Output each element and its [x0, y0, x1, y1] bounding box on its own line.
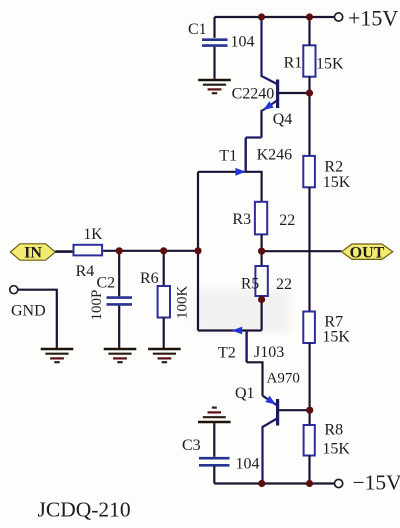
svg-text:104: 104: [231, 34, 255, 51]
transistor Q4 bar: [276, 80, 279, 109]
junction bottom rail R8: [306, 480, 313, 487]
terminal -15V circle: [335, 479, 343, 487]
junction R6 top: [160, 247, 167, 254]
wire input node: [103, 250, 198, 252]
inverted ground (C3): [198, 408, 231, 422]
svg-text:R1: R1: [284, 55, 303, 72]
jfet T2 source lead: [247, 329, 262, 331]
capacitor C1: [202, 40, 228, 46]
transistor Q1 bar: [276, 399, 279, 426]
svg-text:IN: IN: [24, 245, 42, 262]
wire R8 bottom: [308, 456, 310, 484]
svg-text:1K: 1K: [84, 226, 104, 243]
wire T2 gate: [198, 329, 247, 331]
wire top rail +15V: [215, 16, 335, 18]
svg-text:C2240: C2240: [232, 86, 275, 103]
resistor R3: [255, 202, 267, 235]
svg-text:T2: T2: [218, 345, 236, 362]
capacitor C1 stem bottom: [213, 47, 215, 79]
wire node R7R8 down: [309, 410, 311, 425]
svg-text:100P: 100P: [89, 290, 105, 321]
resistor R8: [304, 425, 315, 456]
svg-text:T1: T1: [219, 148, 237, 165]
ground (C2): [104, 349, 137, 362]
jfet T1 source lead: [246, 172, 262, 202]
capacitor C2 stem top: [118, 251, 120, 296]
ground (C1): [198, 80, 231, 93]
svg-text:−15V: −15V: [353, 471, 400, 495]
svg-text:R3: R3: [232, 211, 251, 228]
arrow Q1 emitter: [265, 396, 275, 405]
svg-text:15K: 15K: [323, 174, 351, 191]
wire R7 bottom: [309, 343, 311, 410]
jfet T2 channel bar: [245, 331, 247, 363]
svg-text:R5: R5: [241, 276, 259, 293]
junction R7 R8 base: [306, 407, 313, 414]
jfet T2 drain lead: [247, 362, 263, 395]
capacitor C1 stem top: [213, 17, 215, 38]
svg-text:104: 104: [236, 456, 260, 473]
transistor Q1 collector: [263, 419, 278, 484]
svg-text:OUT: OUT: [350, 244, 385, 261]
arrow T2 gate: [232, 327, 242, 335]
transistor Q1 emitter: [263, 396, 278, 406]
wire R1 top: [308, 17, 310, 45]
svg-text:R6: R6: [140, 270, 159, 287]
net flag OUT: [342, 244, 393, 261]
wire Q4 emitter riser: [260, 110, 262, 138]
junction output node: [258, 248, 265, 255]
svg-text:Q4: Q4: [273, 111, 293, 128]
wire bottom rail -15V: [214, 482, 334, 484]
svg-text:100K: 100K: [175, 286, 191, 320]
resistor R2: [303, 156, 315, 187]
resistor R6: [158, 286, 170, 318]
svg-text:C2: C2: [97, 275, 116, 292]
svg-text:C3: C3: [182, 437, 201, 454]
junction gate rail: [194, 247, 201, 254]
wire R5 top: [261, 251, 263, 266]
svg-text:15K: 15K: [322, 441, 350, 458]
resistor R5: [255, 266, 267, 296]
capacitor C2 stem bottom: [118, 306, 120, 348]
wire R2 to R7: [308, 187, 310, 311]
wire Q4 base to node: [278, 92, 310, 94]
wire node R1R2 down: [308, 93, 310, 156]
junction R1 R2 base: [306, 89, 313, 96]
wire IN to R4: [55, 250, 72, 253]
junction bottom rail center: [258, 480, 265, 487]
resistor R1: [303, 45, 315, 76]
wire Q4 collector riser: [262, 17, 278, 84]
svg-text:15K: 15K: [322, 329, 350, 346]
svg-text:K246: K246: [257, 147, 293, 164]
svg-text:J103: J103: [254, 344, 284, 361]
wire R3 bottom: [261, 234, 263, 251]
capacitor C2: [107, 298, 133, 305]
junction top rail R1: [306, 13, 313, 20]
svg-text:22: 22: [276, 276, 292, 293]
svg-text:R8: R8: [324, 422, 343, 439]
svg-text:A970: A970: [267, 371, 300, 387]
svg-text:Q1: Q1: [235, 385, 255, 402]
wire gate rail: [197, 172, 199, 331]
capacitor C3: [199, 458, 230, 465]
capacitor C3 stem top: [213, 422, 215, 457]
wire R6 bottom: [163, 318, 165, 349]
junction top rail center: [258, 13, 265, 20]
resistor R7: [303, 312, 315, 344]
svg-text:15K: 15K: [316, 56, 344, 73]
arrow Q4 emitter: [263, 101, 273, 110]
wire T1 gate: [198, 171, 246, 173]
ground (R6): [148, 349, 181, 362]
terminal GND circle: [10, 286, 18, 294]
wire Q1 base to node: [278, 409, 310, 411]
svg-text:JCDQ-210: JCDQ-210: [38, 498, 131, 522]
capacitor C3 stem bottom: [213, 466, 215, 484]
wire R6 top: [163, 251, 165, 286]
svg-text:GND: GND: [11, 303, 46, 320]
ground (GND): [41, 349, 74, 362]
svg-text:+15V: +15V: [348, 6, 398, 31]
svg-text:C1: C1: [188, 21, 207, 38]
wire R5 bottom: [261, 296, 263, 331]
svg-text:R4: R4: [76, 263, 95, 280]
terminal +15V circle: [335, 13, 343, 21]
junction below R5: [258, 296, 265, 303]
jfet T1 drain lead: [246, 136, 262, 138]
wire GND: [18, 290, 57, 348]
svg-text:R2: R2: [324, 159, 343, 176]
transistor Q4 emitter: [263, 101, 278, 111]
wire R1 bottom: [308, 77, 310, 93]
junction C2 top: [116, 247, 123, 254]
net flag IN: [10, 244, 55, 262]
arrow T1 gate: [235, 168, 245, 176]
wire output: [262, 250, 342, 252]
svg-text:22: 22: [279, 212, 295, 229]
resistor R4: [74, 245, 103, 256]
jfet T1 channel bar: [244, 138, 246, 172]
